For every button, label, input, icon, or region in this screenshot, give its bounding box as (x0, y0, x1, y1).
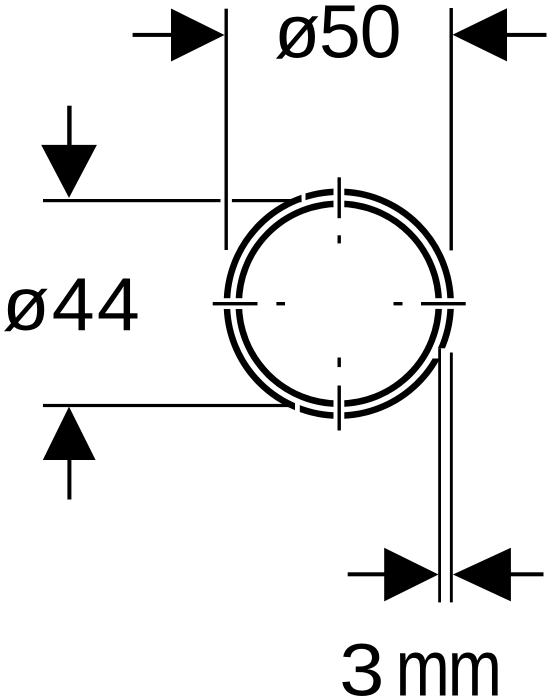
horizontal centerline long dash right (421, 302, 466, 305)
pipe inner wall circle (ø44) (239, 204, 439, 404)
ø44 top reference line (right segment) (232, 199, 302, 202)
vertical centerline long dash bottom (338, 386, 341, 431)
3mm right extension line (outer wall) (450, 353, 453, 603)
horizontal centerline short dash right (394, 302, 403, 305)
ø50 dimension arrow left (points right) (133, 9, 225, 62)
white break in circles at bottom centerline (334, 397, 345, 423)
horizontal centerline short dash left (276, 302, 285, 305)
vertical centerline short dash bottom (338, 358, 341, 368)
3mm dimension arrow right (points left) (453, 548, 544, 602)
ø44 top reference line (left segment) (43, 199, 221, 202)
ø50 right extension line (450, 8, 453, 250)
white break in outer circle at ø44 top line end (302, 193, 306, 205)
ø50 left extension line (225, 9, 228, 250)
white break in circles at top centerline (334, 183, 345, 211)
white break in circles at left centerline (218, 298, 246, 309)
ø44 dimension arrow bottom (points up) (43, 407, 96, 500)
svg-text:ø50: ø50 (274, 0, 400, 74)
pipe outer wall circle (ø50) (227, 192, 451, 416)
3mm left extension line (inner wall) (438, 349, 441, 603)
white break in outer circle at 3mm left line crossing (433, 348, 446, 358)
white break in outer circle at ø44 bottom line end (295, 400, 300, 415)
ø44 dimension arrow top (points down) (41, 106, 97, 198)
vertical centerline short dash top (338, 235, 341, 243)
svg-text:mm: mm (396, 624, 500, 696)
horizontal centerline long dash left (213, 302, 258, 305)
svg-text:ø44: ø44 (2, 263, 142, 347)
svg-text:3: 3 (339, 627, 384, 696)
vertical centerline long dash top (338, 177, 341, 218)
ø50 dimension arrow right (points left) (453, 8, 547, 61)
ø44 bottom reference line (43, 404, 295, 407)
white break in circles at right centerline (432, 298, 459, 309)
3mm dimension arrow left (points right) (348, 548, 439, 602)
